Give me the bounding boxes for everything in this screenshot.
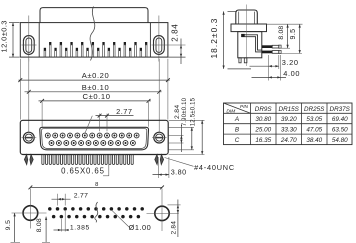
label #4-40UNC thread bbox=[165, 158, 235, 173]
front view: D-shell outer bbox=[40, 127, 149, 150]
svg-text:0.65X0.65: 0.65X0.65 bbox=[61, 166, 105, 175]
dimension 9.5 bbox=[280, 24, 302, 53]
dimension 2.77 footprint bbox=[52, 193, 89, 206]
svg-text:DR15S: DR15S bbox=[279, 106, 300, 113]
dimension 2.84 footprint bbox=[168, 200, 181, 238]
svg-text:3.80: 3.80 bbox=[171, 168, 187, 177]
svg-text:C: C bbox=[235, 137, 240, 144]
dimension 3.20 bbox=[250, 55, 299, 81]
svg-text:2.84: 2.84 bbox=[170, 24, 179, 42]
dimension C±0.10 bbox=[39, 92, 151, 127]
label 0.65X0.65 pin size bbox=[61, 164, 109, 176]
footprint: right mounting hole bbox=[155, 206, 169, 220]
svg-text:47.05: 47.05 bbox=[306, 127, 322, 134]
svg-text:30.80: 30.80 bbox=[255, 116, 271, 123]
dimension 2.84 top view bbox=[168, 24, 185, 64]
svg-text:4.00: 4.00 bbox=[283, 69, 300, 78]
svg-text:38.40: 38.40 bbox=[306, 137, 322, 144]
front view: left board lock bbox=[24, 155, 33, 165]
svg-text:2.84: 2.84 bbox=[171, 221, 178, 235]
svg-text:8.08: 8.08 bbox=[278, 26, 285, 40]
dimension 3.80 bbox=[153, 157, 187, 178]
footprint: centerlines bbox=[12, 189, 179, 232]
dimension 2.84 front view bbox=[169, 105, 184, 152]
top view: right mounting slot bbox=[154, 36, 165, 55]
svg-text:8: 8 bbox=[95, 182, 98, 188]
top view: end block separators bbox=[39, 23, 150, 58]
dimension 18.2±0.3 bbox=[209, 11, 251, 69]
dimension 12.0±0.3 bbox=[0, 20, 20, 57]
svg-text:1.385: 1.385 bbox=[70, 224, 90, 231]
dimension 4.00 bbox=[252, 55, 301, 81]
top view: insulator hood bbox=[40, 8, 148, 23]
dimension 8.08 bbox=[267, 24, 303, 48]
dimension B±0.10 bbox=[25, 59, 162, 132]
side view: insulator body bbox=[238, 32, 262, 58]
front view: D-shell inner bbox=[41, 129, 146, 149]
dimension 7.90±0.10 bbox=[169, 97, 194, 149]
top view: slot centerlines bbox=[22, 16, 186, 62]
svg-text:DR9S: DR9S bbox=[255, 106, 273, 113]
svg-text:Ø1.00: Ø1.00 bbox=[129, 223, 152, 232]
svg-text:12.0±0.3: 12.0±0.3 bbox=[0, 20, 8, 52]
svg-text:9.5: 9.5 bbox=[5, 220, 12, 231]
svg-text:33.30: 33.30 bbox=[281, 127, 297, 134]
svg-text:C±0.10: C±0.10 bbox=[82, 92, 110, 101]
side view: flange bbox=[231, 24, 267, 32]
side view: centerline bbox=[246, 5, 248, 67]
svg-text:24.70: 24.70 bbox=[280, 137, 297, 144]
dimension 8 overall bbox=[29, 182, 164, 189]
svg-text:A: A bbox=[234, 116, 239, 123]
top view: pin tails row bbox=[44, 42, 148, 57]
front view: right board lock bbox=[155, 155, 164, 165]
front view: solder pins comb (25) bbox=[42, 155, 133, 165]
top view: break line bbox=[90, 7, 95, 61]
front view: contact holes bottom row (12) bbox=[49, 141, 135, 146]
svg-text:8.08: 8.08 bbox=[36, 218, 43, 232]
top view: flange body bbox=[20, 23, 168, 58]
front view: flange plate bbox=[20, 120, 168, 154]
dimension 12.5±0.15 bbox=[169, 97, 205, 154]
svg-text:PIN: PIN bbox=[240, 104, 249, 110]
dimension 8.08 footprint bbox=[36, 217, 50, 243]
svg-text:DR25S: DR25S bbox=[304, 106, 325, 113]
dimension table bbox=[224, 103, 353, 145]
dimension A±0.20 bbox=[18, 59, 169, 120]
front view: contact holes top row (13) bbox=[45, 133, 139, 138]
svg-text:54.80: 54.80 bbox=[332, 137, 348, 144]
svg-text:B: B bbox=[235, 127, 239, 134]
svg-text:63.50: 63.50 bbox=[332, 127, 348, 134]
svg-text:B±0.10: B±0.10 bbox=[82, 83, 110, 92]
svg-text:7.90±0.10: 7.90±0.10 bbox=[182, 97, 188, 126]
svg-text:#4-40UNC: #4-40UNC bbox=[194, 163, 235, 172]
svg-text:A±0.20: A±0.20 bbox=[82, 71, 110, 80]
svg-text:69.40: 69.40 bbox=[332, 116, 348, 123]
footprint: break line bbox=[95, 202, 98, 222]
dimension 9.5 footprint bbox=[5, 213, 20, 242]
footprint: pad row top (13) bbox=[48, 207, 144, 211]
side view: board lock legs bbox=[239, 58, 247, 63]
svg-text:DR37S: DR37S bbox=[330, 106, 351, 113]
svg-text:25.00: 25.00 bbox=[254, 127, 271, 134]
dimension 1.385 bbox=[54, 211, 90, 232]
svg-text:2.77: 2.77 bbox=[116, 107, 132, 116]
svg-text:DIM: DIM bbox=[226, 109, 235, 115]
front view: left screw #4-40 bbox=[22, 132, 37, 143]
footprint: pad row bottom (12) bbox=[52, 215, 140, 219]
svg-text:12.5±0.15: 12.5±0.15 bbox=[190, 97, 196, 126]
side view: contact bbox=[241, 34, 262, 52]
svg-text:39.20: 39.20 bbox=[281, 116, 297, 123]
svg-text:3.20: 3.20 bbox=[282, 58, 299, 67]
front view: right screw #4-40 bbox=[152, 132, 167, 143]
side view: mating shell bbox=[236, 10, 257, 24]
svg-text:16.35: 16.35 bbox=[255, 137, 271, 144]
dimension 2.77 front view bbox=[85, 107, 134, 133]
svg-text:18.2±0.3: 18.2±0.3 bbox=[209, 17, 219, 58]
svg-text:53.05: 53.05 bbox=[306, 116, 322, 123]
svg-text:9.5: 9.5 bbox=[290, 29, 297, 40]
side view: pin 1 bbox=[262, 45, 281, 48]
svg-text:2.84: 2.84 bbox=[174, 105, 181, 119]
side view: pin 2 bbox=[262, 50, 281, 53]
svg-text:2.77: 2.77 bbox=[74, 193, 88, 200]
label Ø1.00 hole bbox=[112, 211, 151, 232]
footprint: left mounting hole bbox=[23, 206, 38, 221]
top view: left mounting slot bbox=[23, 36, 34, 55]
